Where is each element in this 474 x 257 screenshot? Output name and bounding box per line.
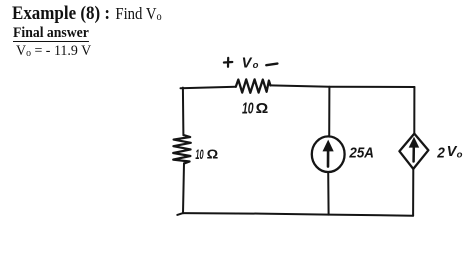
subtitle: Final answer xyxy=(13,27,89,42)
title: Example (8) : Find Vo xyxy=(12,2,162,28)
svg-text:o: o xyxy=(457,150,463,161)
svg-text:o: o xyxy=(253,60,259,71)
svg-text:Ω: Ω xyxy=(207,146,219,161)
svg-text:25A: 25A xyxy=(348,146,374,162)
wire: left vertical upper xyxy=(182,88,185,136)
resistor R2 10ohm (left, vertical zigzag) xyxy=(173,135,191,163)
svg-text:10: 10 xyxy=(195,147,203,162)
answer: Vo = -11.9 V xyxy=(16,44,91,60)
svg-text:V: V xyxy=(242,56,253,72)
label: + (polarity plus) xyxy=(224,58,232,67)
arrow of current source xyxy=(327,149,330,167)
svg-text:Ω: Ω xyxy=(256,100,269,117)
resistor R1 10ohm (top, horizontal zigzag) xyxy=(236,79,271,92)
wire: top-right horizontal xyxy=(270,85,414,87)
wire: right vertical lower xyxy=(412,169,414,216)
wire: middle vertical upper xyxy=(328,87,330,137)
wire: right vertical upper xyxy=(413,87,415,134)
svg-text:2: 2 xyxy=(436,144,445,161)
current source I1 25A (circle) xyxy=(312,136,345,172)
dependent source U1 2Vo (diamond) xyxy=(399,134,428,169)
label: - (polarity minus) xyxy=(266,64,277,66)
wire: bottom horizontal xyxy=(177,213,413,216)
arrow of dependent source xyxy=(412,146,415,162)
wire: top-left horizontal lead xyxy=(181,87,236,89)
wire: middle vertical lower xyxy=(327,172,329,215)
svg-text:10: 10 xyxy=(242,100,254,117)
wire: left vertical lower xyxy=(183,163,184,213)
